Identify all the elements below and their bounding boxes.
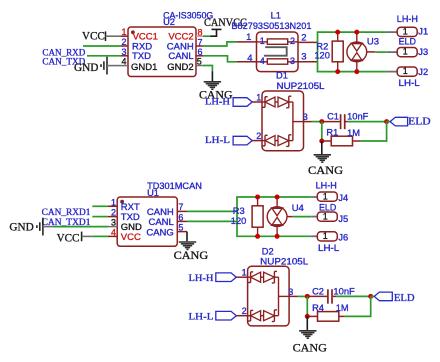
svg-text:3: 3 (303, 112, 308, 122)
svg-text:2: 2 (290, 36, 295, 46)
svg-text:CANG: CANG (293, 343, 327, 355)
svg-text:VCC: VCC (82, 31, 105, 43)
wire bottom CANL rail (236, 235, 311, 237)
svg-text:4: 4 (260, 56, 265, 66)
wire pin3 node down to R1 (321, 122, 323, 141)
svg-text:1: 1 (323, 231, 328, 241)
svg-text:GND2: GND2 (167, 62, 193, 73)
svg-text:1: 1 (323, 191, 328, 201)
node ELD junction (top) (384, 119, 389, 124)
svg-text:1: 1 (403, 26, 408, 36)
svg-text:R3: R3 (233, 206, 245, 216)
wire CAN_TXD1 to U1 pin2 (92, 216, 108, 218)
wire to J1 (387, 31, 398, 33)
svg-text:LH-H: LH-H (189, 274, 214, 284)
connector J5 (317, 212, 337, 221)
node D2 pin3 junction (305, 294, 310, 299)
junction dots U4 (275, 195, 280, 200)
svg-text:ELD: ELD (399, 37, 417, 47)
wire C2 to ELD node (337, 295, 371, 297)
IC U2 CA-IS3050G transceiver body (128, 27, 196, 77)
svg-text:LH-L: LH-L (189, 313, 214, 323)
IC U1 TD301MCAN body (117, 197, 177, 246)
svg-text:J1: J1 (418, 27, 428, 37)
wire R4 to ELD node (345, 296, 371, 316)
wire bottom CANH rail (236, 196, 311, 198)
wire U1 pin7 CANH to rail (187, 210, 237, 212)
wire U2 pin5 GND2 to CANG (203, 65, 209, 67)
wire U2 pin8 to CANVCC (203, 35, 211, 37)
L1 core (264, 47, 287, 56)
wire D2 pin3 to junction (289, 295, 297, 297)
wire CAN_RXD1 to U1 pin1 (92, 205, 108, 207)
svg-text:NUP2105L: NUP2105L (260, 256, 308, 266)
U1 pin stubs right (177, 210, 187, 212)
svg-text:LH-L: LH-L (205, 136, 230, 146)
svg-text:U2: U2 (163, 17, 175, 27)
capacitor C1 10nF (322, 121, 340, 123)
wire VCC to U1 pin4 (82, 235, 93, 237)
wire pin3 node down to R4 (306, 296, 308, 316)
svg-text:10nF: 10nF (333, 287, 355, 297)
wire U2 pin6 CANL to L1 pin4 (203, 56, 237, 62)
wire U1 pin6 CANL to rail (187, 220, 237, 222)
ground CANG (R1) (314, 154, 331, 156)
net flag ELD (top) (387, 121, 391, 123)
wire CAN_RXD to U2 pin2 (83, 45, 121, 47)
wire U4 to J5 (287, 216, 293, 218)
svg-text:1: 1 (403, 47, 408, 57)
U2 pin stubs right (196, 35, 203, 37)
svg-text:J3: J3 (418, 47, 428, 57)
svg-text:1: 1 (403, 66, 408, 76)
svg-text:CAN_RXD1: CAN_RXD1 (42, 208, 91, 218)
node D1 pin3 junction (319, 119, 324, 124)
svg-text:2: 2 (301, 32, 306, 43)
svg-text:NUP2105L: NUP2105L (277, 81, 325, 91)
resistor R4 1M (307, 315, 317, 317)
svg-text:120: 120 (314, 51, 330, 61)
svg-text:LH-H: LH-H (205, 98, 230, 108)
svg-text:C1: C1 (327, 111, 339, 121)
connector J4 (317, 192, 337, 201)
wire GND to U2 pin4 (107, 65, 121, 67)
D2 diode pair row 2 (247, 315, 251, 317)
wire U1 pin5 to CANG (186, 232, 188, 242)
ground CANG (R4) (299, 330, 316, 332)
svg-text:3: 3 (301, 52, 306, 63)
svg-text:1: 1 (242, 268, 247, 278)
D2 internal pin3 connection (278, 277, 280, 316)
resistor R3 120 (257, 197, 259, 206)
svg-text:1M: 1M (347, 128, 360, 138)
wire CANL bottom rail (317, 71, 387, 73)
svg-text:GND: GND (74, 62, 98, 74)
svg-text:ELD: ELD (319, 202, 337, 212)
D2 diode pair row 1 (247, 276, 251, 278)
wire bottom vertical rail (236, 197, 238, 236)
wire LH-L to D2 pin2 (236, 315, 247, 317)
wire to J4 (311, 196, 317, 198)
wire R1 to ELD node (361, 122, 387, 141)
node R4 junction (305, 314, 310, 319)
svg-text:3: 3 (288, 287, 293, 297)
svg-text:GND: GND (9, 221, 33, 233)
svg-text:120: 120 (231, 216, 247, 226)
node R1 junction (319, 139, 324, 144)
svg-text:7: 7 (178, 202, 183, 212)
svg-text:J6: J6 (338, 233, 348, 243)
junction dots R2 (335, 30, 340, 35)
connector J3 (397, 48, 417, 57)
resistor R2 120 (337, 32, 339, 41)
svg-text:J5: J5 (338, 214, 348, 224)
svg-text:U1: U1 (147, 188, 159, 198)
wire L1 pin3 to CANL rail (298, 61, 318, 63)
node ELD junction (bottom) (368, 294, 373, 299)
resistor R1 1M (322, 140, 331, 142)
svg-text:LH-H: LH-H (316, 180, 337, 190)
wire to J2 (387, 71, 398, 73)
D1 diode pair row 2 (262, 140, 266, 142)
wire to J6 (311, 235, 317, 237)
svg-text:1: 1 (260, 36, 265, 46)
svg-text:LH-H: LH-H (397, 14, 418, 24)
U1 pin stubs left (108, 205, 117, 207)
svg-text:LH-L: LH-L (318, 243, 339, 253)
U2 pin stubs left (121, 35, 128, 37)
wire U2 pin7 CANH to L1 pin1 (203, 42, 237, 46)
wire to J3 (387, 51, 397, 53)
svg-text:J2: J2 (418, 67, 428, 77)
svg-text:CANG: CANG (146, 227, 173, 238)
junction dots R3 (255, 195, 260, 200)
svg-text:1M: 1M (336, 303, 349, 313)
svg-text:VCC: VCC (57, 232, 80, 244)
net flag ELD (bottom) (371, 295, 375, 297)
svg-text:J4: J4 (338, 193, 348, 203)
svg-text:1: 1 (323, 211, 328, 221)
gas discharge tube U3 (356, 32, 358, 42)
wire LH-H to D2 pin1 (236, 276, 247, 278)
svg-text:D1: D1 (276, 71, 288, 81)
svg-text:4: 4 (247, 53, 252, 64)
svg-text:B82793S0513N201: B82793S0513N201 (231, 21, 311, 31)
svg-text:CANG: CANG (174, 250, 209, 262)
wire R4 node to ground (306, 316, 308, 330)
svg-text:10nF: 10nF (347, 111, 369, 121)
wire LH-L to D1 pin2 (252, 140, 262, 142)
svg-text:CANG: CANG (308, 165, 343, 177)
ground CANG (U2 pin5) (204, 81, 221, 83)
svg-text:TXD: TXD (132, 51, 151, 62)
wire LH-H to D1 pin1 (252, 101, 262, 103)
D1 internal pin3 connection (292, 102, 294, 141)
svg-text:3: 3 (290, 56, 295, 66)
wire to J5 (311, 216, 317, 218)
wire D1 pin3 to junction (304, 121, 312, 123)
wire GND to U1 pin3 (43, 226, 53, 228)
svg-text:R4: R4 (312, 303, 324, 313)
ground CANG (U1 pin5) (179, 241, 196, 243)
L1 winding 1-2 (257, 41, 268, 43)
svg-text:L1: L1 (271, 11, 281, 21)
wire CANH/CANL vertical rail (317, 32, 319, 72)
gas discharge tube U4 (276, 197, 278, 207)
wire C1 to ELD node (348, 121, 387, 123)
svg-text:R1: R1 (326, 127, 338, 137)
connector J6 (317, 232, 337, 241)
svg-text:D2: D2 (262, 247, 274, 257)
wire CANH top rail (317, 31, 387, 33)
wire L1 pin2 to CANH rail (298, 41, 318, 43)
svg-text:CANL: CANL (168, 51, 193, 62)
wire U3 to J3 (367, 51, 376, 53)
wire CAN_TXD to U2 pin3 (87, 55, 121, 57)
svg-text:U3: U3 (367, 36, 379, 47)
svg-text:ELD: ELD (394, 293, 415, 304)
svg-text:ELD: ELD (408, 117, 430, 128)
junction dots U3 (354, 30, 359, 35)
wire R1 node to ground (321, 141, 323, 154)
capacitor C2 10nF (307, 295, 327, 297)
svg-text:LH-L: LH-L (399, 78, 420, 88)
wire VCC to U2 pin1 (106, 35, 122, 37)
L1 winding 4-3 (257, 61, 268, 63)
svg-text:U4: U4 (292, 203, 304, 214)
svg-text:GND1: GND1 (131, 62, 157, 73)
connector J1 (397, 27, 417, 36)
svg-text:1: 1 (246, 32, 251, 43)
svg-text:VCC: VCC (121, 232, 141, 243)
D1 diode pair row 1 (262, 101, 266, 103)
svg-text:1: 1 (256, 92, 261, 102)
svg-text:C2: C2 (312, 287, 324, 297)
svg-text:2: 2 (242, 306, 247, 316)
svg-text:2: 2 (256, 131, 261, 141)
connector J2 (397, 67, 417, 76)
